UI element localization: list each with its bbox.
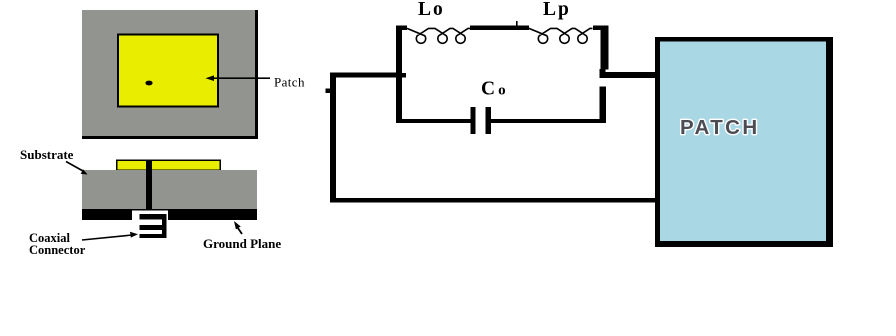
- wire: top-right corner piece: [593, 26, 609, 31]
- arrow substrate: [66, 162, 88, 175]
- capacitor Co right plate: [486, 107, 492, 134]
- coaxial connector body: [138, 211, 167, 242]
- svg-text:Lo: Lo: [418, 0, 445, 20]
- svg-text:PATCH: PATCH: [680, 116, 760, 139]
- wire: middle segment: [470, 26, 529, 31]
- arrow coaxial connector: [82, 232, 138, 240]
- svg-text:Connector: Connector: [29, 243, 86, 257]
- capacitor Co left plate: [471, 107, 476, 134]
- wire: top-left horizontal: [330, 73, 402, 78]
- connector notch (white): [132, 211, 168, 221]
- inductor Lo: [407, 28, 471, 43]
- node: parallel box right bar lower: [600, 87, 607, 121]
- wire: outer left vertical: [330, 73, 336, 203]
- feed point dot: [145, 81, 152, 86]
- svg-text:Ground Plane: Ground Plane: [203, 236, 281, 251]
- node: junction nub on left bar: [402, 73, 406, 78]
- PATCH box: [655, 37, 833, 247]
- feed pin: [146, 161, 152, 210]
- svg-text:Patch: Patch: [274, 75, 305, 90]
- ground plane (top view, gray with black shadow border): [82, 10, 258, 139]
- patch (yellow square): [117, 34, 219, 108]
- ground plane strip: [82, 209, 257, 220]
- wire: capacitor branch right: [491, 119, 606, 123]
- wire: top-left corner piece: [396, 26, 407, 31]
- wire: output to patch: [605, 72, 659, 78]
- label Coaxial Connector: [29, 231, 86, 257]
- svg-text:Lp: Lp: [543, 0, 571, 20]
- tick on left vertical: [326, 89, 331, 94]
- node: parallel box left bar: [396, 26, 402, 120]
- node: parallel box right bar at junction: [600, 69, 606, 78]
- svg-text:Substrate: Substrate: [20, 147, 74, 162]
- inductor Lp: [529, 28, 593, 43]
- tick on middle segment: [516, 21, 518, 26]
- node: parallel box right bar upper: [601, 26, 609, 70]
- arrow ground plane: [234, 221, 242, 234]
- arrow to Patch label: [206, 75, 271, 81]
- svg-text:Co: Co: [481, 79, 509, 100]
- patch strip (yellow): [116, 160, 221, 172]
- wire: capacitor branch left: [396, 119, 471, 123]
- substrate block (gray): [82, 170, 257, 209]
- wire: bottom horizontal: [330, 198, 661, 203]
